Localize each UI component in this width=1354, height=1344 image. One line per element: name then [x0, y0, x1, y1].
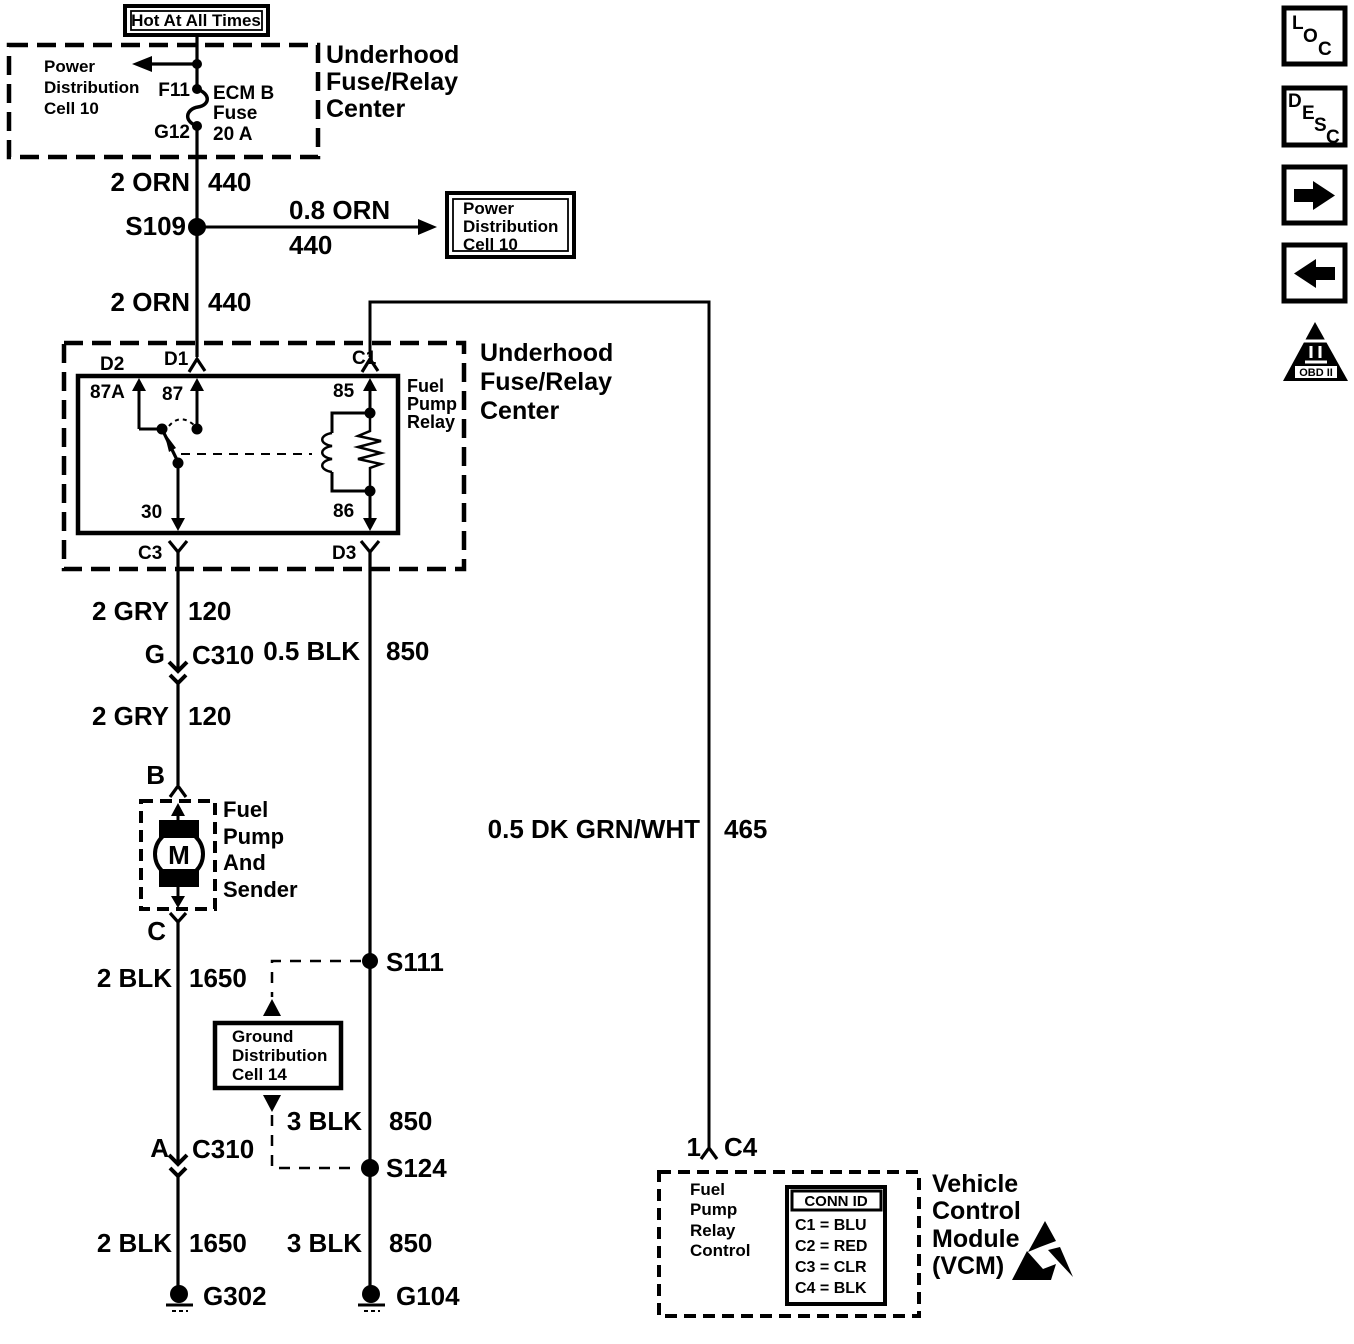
underhood fuse/relay center dashed box (relay) [64, 343, 464, 569]
svg-text:Control: Control [932, 1197, 1021, 1225]
wire label 2 GRY 120 (second) [92, 701, 231, 731]
connector fork at D3 [361, 541, 379, 552]
wire label 0.5 DK GRN/WHT 465 [488, 814, 768, 844]
text Fuel Pump Relay [407, 376, 457, 432]
svg-text:440: 440 [208, 167, 251, 197]
wire C310 A to ground G302 [176, 1176, 179, 1288]
wire label 3 BLK 850 (second) [287, 1228, 433, 1258]
svg-text:S124: S124 [386, 1153, 447, 1183]
label Hot At All Times [125, 6, 268, 35]
svg-text:Fuel: Fuel [223, 797, 268, 822]
svg-text:Cell 10: Cell 10 [44, 99, 99, 118]
fuse F11 ECM B 20 A [188, 84, 208, 131]
svg-text:1650: 1650 [189, 963, 247, 993]
relay pin 87 arrow [190, 378, 204, 435]
svg-text:Underhood: Underhood [480, 339, 613, 367]
svg-text:C: C [1318, 39, 1332, 60]
svg-text:87: 87 [162, 384, 183, 405]
svg-text:120: 120 [188, 701, 231, 731]
relay pin 87A arrow [132, 378, 168, 435]
svg-text:3 BLK: 3 BLK [287, 1106, 362, 1136]
svg-text:2 GRY: 2 GRY [92, 701, 169, 731]
svg-text:Sender: Sender [223, 877, 298, 902]
icon back arrow box [1284, 245, 1345, 301]
mechanical link dashed [181, 453, 312, 455]
svg-text:Fuel: Fuel [407, 376, 444, 396]
svg-text:3 BLK: 3 BLK [287, 1228, 362, 1258]
wire from Hot At All Times box down [195, 35, 198, 89]
connector fork at B [170, 786, 186, 797]
svg-text:G: G [145, 639, 165, 669]
text Underhood Fuse/Relay Center (top) [326, 41, 459, 123]
power distribution cell 10 box (right) [447, 193, 574, 257]
svg-text:And: And [223, 850, 266, 875]
svg-text:Pump: Pump [690, 1200, 737, 1219]
svg-text:Ground: Ground [232, 1027, 293, 1046]
svg-text:85: 85 [333, 381, 355, 402]
svg-text:87A: 87A [90, 382, 125, 403]
svg-text:C4 = BLK: C4 = BLK [795, 1280, 867, 1297]
arrow to ground distribution (up triangle) [263, 999, 281, 1016]
wire label 3 BLK 850 [287, 1106, 433, 1136]
text Underhood Fuse/Relay Center (relay) [480, 339, 613, 425]
wire label 0.5 BLK 850 [263, 636, 429, 666]
text Fuel Pump And Sender [223, 797, 298, 902]
svg-text:C310: C310 [192, 1134, 254, 1164]
svg-text:Power: Power [44, 57, 95, 76]
svg-text:Relay: Relay [690, 1221, 736, 1240]
wire C3 to connector C310 [176, 552, 179, 670]
svg-text:86: 86 [333, 501, 354, 522]
inline connector C310 pin G [145, 639, 254, 683]
icon forward arrow box [1284, 167, 1345, 223]
svg-text:G12: G12 [154, 122, 190, 143]
svg-text:850: 850 [386, 636, 429, 666]
underhood fuse/relay center dashed box (top) [9, 45, 318, 157]
svg-text:30: 30 [141, 502, 162, 523]
svg-text:D2: D2 [100, 354, 124, 375]
svg-text:465: 465 [724, 814, 767, 844]
svg-text:F11: F11 [158, 80, 190, 101]
relay coil [322, 413, 370, 491]
text Vehicle Control Module (VCM) [932, 1170, 1021, 1280]
icon DESC box [1284, 88, 1345, 148]
relay pin 30 wire down [171, 463, 185, 531]
svg-text:C1 = BLU: C1 = BLU [795, 1217, 867, 1234]
relay coil resistor [358, 413, 381, 491]
vehicle control module dashed box [659, 1172, 919, 1316]
svg-text:2 ORN: 2 ORN [111, 167, 190, 197]
svg-text:Pump: Pump [223, 824, 284, 849]
splice S124 [361, 1153, 447, 1183]
svg-text:1650: 1650 [189, 1228, 247, 1258]
svg-text:G302: G302 [203, 1281, 267, 1311]
svg-text:440: 440 [208, 287, 251, 317]
svg-text:S109: S109 [125, 211, 186, 241]
splice S109 [188, 218, 206, 236]
wire pump pin C to connector C310 A [176, 922, 179, 1163]
CONN ID table [787, 1187, 885, 1304]
svg-text:440: 440 [289, 230, 332, 260]
svg-text:1: 1 [687, 1132, 701, 1162]
svg-text:C3: C3 [138, 543, 162, 564]
wire label 2 GRY 120 [92, 596, 231, 626]
fuel pump and sender dashed box [141, 801, 215, 909]
wire S109 to power distribution (right) [197, 219, 437, 235]
wire branch arrow to Power Distribution [132, 56, 197, 72]
svg-text:2 BLK: 2 BLK [97, 963, 172, 993]
svg-text:Distribution: Distribution [232, 1046, 327, 1065]
wire label 2 BLK 1650 [97, 963, 247, 993]
svg-text:S: S [1314, 115, 1327, 136]
ESD sensitive symbol [1012, 1221, 1073, 1280]
svg-text:C310: C310 [192, 640, 254, 670]
svg-text:C: C [1326, 127, 1340, 148]
svg-text:Power: Power [463, 199, 514, 218]
svg-text:Fuse/Relay: Fuse/Relay [480, 368, 612, 396]
connector fork at C1 [362, 359, 378, 372]
connector fork at C [170, 913, 186, 922]
wire C310 to fuel pump pin B [176, 683, 179, 785]
svg-text:(VCM): (VCM) [932, 1252, 1004, 1280]
svg-text:Center: Center [326, 95, 405, 123]
svg-text:Control: Control [690, 1241, 750, 1260]
fuel pump relay solid box [78, 376, 398, 533]
svg-text:S111: S111 [386, 947, 444, 977]
wire S109 down to relay pin D1 [195, 227, 198, 357]
icon LOC box [1284, 8, 1345, 64]
wire C1 riser and long run to VCM [370, 302, 709, 1147]
relay switch blade [163, 431, 184, 469]
svg-text:120: 120 [188, 596, 231, 626]
value label ECM B Fuse 20 A [213, 83, 274, 145]
svg-text:B: B [146, 760, 165, 790]
svg-text:Underhood: Underhood [326, 41, 459, 69]
svg-text:C2 = RED: C2 = RED [795, 1238, 867, 1255]
svg-text:Center: Center [480, 397, 559, 425]
ground G302 [166, 1281, 267, 1311]
svg-text:C: C [147, 916, 166, 946]
connector fork at VCM pin 1 [701, 1148, 717, 1159]
svg-text:0.8 ORN: 0.8 ORN [289, 195, 390, 225]
node coil top junction [365, 408, 376, 419]
svg-text:E: E [1302, 103, 1315, 124]
inline connector C310 pin A [150, 1133, 254, 1176]
fuel pump motor M [155, 803, 203, 908]
dashed jumper ground distribution to S124 [272, 1115, 359, 1168]
dashed jumper S111 to ground distribution [272, 961, 361, 997]
svg-text:Fuse/Relay: Fuse/Relay [326, 68, 458, 96]
node junction at branch [192, 59, 202, 69]
svg-text:M: M [168, 840, 190, 870]
svg-text:0.5 DK GRN/WHT: 0.5 DK GRN/WHT [488, 814, 700, 844]
svg-text:850: 850 [389, 1106, 432, 1136]
wire label 2 ORN 440 [111, 167, 252, 197]
wire fuse to S109 [195, 126, 198, 227]
splice S111 [362, 947, 444, 977]
relay pin 85 arrow [363, 378, 377, 413]
ground distribution cell 14 box [215, 1023, 341, 1088]
text Power Distribution Cell 10 (top left) [44, 57, 139, 118]
svg-text:Fuse: Fuse [213, 103, 257, 124]
wire label 0.8 ORN 440 [289, 195, 390, 260]
connector fork at D1 [189, 359, 205, 372]
svg-text:2 ORN: 2 ORN [111, 287, 190, 317]
dashed arc between contacts 87A and 87 [169, 419, 194, 426]
connector fork at C3 [169, 541, 187, 552]
svg-text:Fuel: Fuel [690, 1180, 725, 1199]
svg-text:O: O [1303, 26, 1318, 47]
svg-text:C4: C4 [724, 1132, 758, 1162]
svg-text:Distribution: Distribution [463, 217, 558, 236]
svg-text:Cell 14: Cell 14 [232, 1065, 287, 1084]
relay pin 86 wire down [363, 491, 377, 531]
svg-text:Hot At All Times: Hot At All Times [131, 11, 261, 30]
svg-text:Distribution: Distribution [44, 78, 139, 97]
svg-text:20 A: 20 A [213, 124, 253, 145]
svg-text:Relay: Relay [407, 412, 455, 432]
wire label 2 BLK 1650 (second) [97, 1228, 247, 1258]
svg-text:C3 = CLR: C3 = CLR [795, 1259, 867, 1276]
svg-text:ECM B: ECM B [213, 83, 274, 104]
svg-text:0.5 BLK: 0.5 BLK [263, 636, 360, 666]
svg-text:G104: G104 [396, 1281, 460, 1311]
wire label 2 ORN 440 (second) [111, 287, 252, 317]
svg-text:2 BLK: 2 BLK [97, 1228, 172, 1258]
svg-text:Pump: Pump [407, 394, 457, 414]
wire relay pin D3 down to ground G104 [368, 552, 371, 1288]
svg-text:Module: Module [932, 1225, 1020, 1253]
arrow from ground distribution (down triangle) [263, 1095, 281, 1112]
node coil bottom junction [365, 486, 376, 497]
text Fuel Pump Relay Control [690, 1180, 750, 1260]
ground G104 [358, 1281, 460, 1311]
svg-text:850: 850 [389, 1228, 432, 1258]
svg-text:D1: D1 [164, 349, 189, 370]
svg-text:D3: D3 [332, 543, 356, 564]
svg-text:D: D [1288, 91, 1302, 112]
svg-text:CONN ID: CONN ID [804, 1193, 868, 1210]
svg-text:OBD II: OBD II [1299, 367, 1333, 379]
svg-text:2 GRY: 2 GRY [92, 596, 169, 626]
svg-text:Vehicle: Vehicle [932, 1170, 1018, 1198]
svg-text:Cell 10: Cell 10 [463, 235, 518, 254]
icon OBD II triangle [1283, 322, 1348, 381]
svg-text:A: A [150, 1133, 169, 1163]
